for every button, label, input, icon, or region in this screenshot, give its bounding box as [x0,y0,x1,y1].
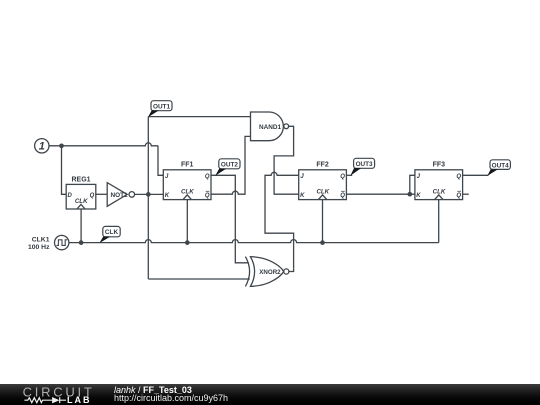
credit line 1 [114,385,192,395]
CircuitLab logo [0,384,110,405]
wire FF1 Qbar to NAND1 input B (hop at 235.3, up x=245) [211,136,251,194]
svg-text:K: K [165,193,170,199]
svg-text:OUT1: OUT1 [153,103,170,110]
svg-text:J: J [300,174,304,180]
flag wedge CLK [99,237,110,244]
svg-text:Q: Q [456,174,461,180]
flip-flop FF2 box [299,170,347,200]
credit line 2 [114,393,228,403]
wire FF1 clock down to CLK line [186,200,188,243]
wire FF1 Q to XNOR2 input A (right, down x=235.3) [211,175,249,262]
svg-text:J: J [417,174,421,180]
flag wedge OUT1 [148,110,159,117]
junction dot CLK/FF2 clock [320,240,325,245]
wire FF2 Q stub to OUT3 [346,174,352,176]
svg-text:NAND1: NAND1 [259,124,281,131]
wire FF3 clock down to CLK line [438,200,440,243]
flag wedge OUT2 [215,169,226,176]
footer bar [0,384,540,405]
FF1 clock edge triangle [183,195,191,200]
flag label OUT3 [354,158,375,168]
svg-text:CLK: CLK [105,229,119,236]
flag label OUT1 [151,101,172,111]
svg-text:XNOR2: XNOR2 [259,269,281,276]
wire FF3 Q to OUT4 [463,174,489,176]
svg-text:CLK: CLK [316,188,329,195]
inverter NOT1 triangle [107,183,127,207]
svg-text:CLK: CLK [75,198,88,205]
wire XNOR2 output to FF2 J (hop over J line at 274.1 is on this J wire) [265,172,299,268]
FF2 clock edge triangle [318,195,326,200]
vertical OUT1 net wire x=148.3 [147,117,149,279]
clock distribution wire y=242.6 with hops at 148.3, 235.3, 293.6 [69,240,439,243]
svg-text:K: K [416,193,421,199]
svg-text:100 Hz: 100 Hz [28,244,50,251]
svg-text:NOT1: NOT1 [111,192,128,199]
wire node1 branch down to FF1 J [158,146,163,176]
svg-text:D: D [68,193,73,199]
svg-text:J: J [165,174,169,180]
register REG1 box [66,184,96,209]
flag label OUT2 [219,159,240,169]
XNOR2 output bubble [284,269,289,274]
svg-text:OUT4: OUT4 [492,162,509,169]
wire OUT1 net to NAND1 input A [148,116,250,118]
CLK1 square wave glyph [56,240,67,246]
wire FF2 Qbar branch up to FF3 J [410,175,415,194]
wire REG1 Q to NOT1 input [96,193,107,195]
nand gate NAND1 body [251,112,284,141]
flag wedge OUT4 [487,169,498,176]
svg-text:OUT2: OUT2 [221,162,238,169]
junction dot FF2 Qbar branch [407,192,412,197]
xnor gate XNOR2 leading arc [245,257,249,287]
svg-text:LAB: LAB [67,395,92,405]
wire NOT1 output to FF1 K [135,193,164,195]
svg-text:CLK1: CLK1 [32,237,50,244]
flag label OUT4 [490,160,510,170]
wire NAND1 output to FF2 K (down x=293.6, left, down x=274.1) [274,126,299,194]
clock source CLK1 circle [55,235,69,249]
NAND1 output bubble [284,124,289,129]
flag label CLK [103,226,120,236]
svg-text:1: 1 [39,141,45,153]
junction dot CLK1/REG1 clock [79,240,84,245]
wire node1 to FF1 J branch (y=145.8, hop at x=148.3) [49,143,158,146]
svg-text:Q: Q [205,174,210,180]
svg-text:FF1: FF1 [181,162,194,169]
flip-flop FF3 box [415,170,463,200]
svg-text:Q: Q [90,193,95,199]
svg-text:FF3: FF3 [433,162,446,169]
node 1 terminal circle [35,139,49,153]
NOT1 output bubble [129,192,135,198]
junction dot NOT1 output / OUT1 net [146,192,151,197]
junction dot node1/REG1 [59,143,64,148]
wire REG1 clock down to CLK line [80,209,82,243]
svg-text:OUT3: OUT3 [356,161,373,168]
svg-text:Q: Q [340,174,345,180]
wire FF2 clock down to CLK line [322,200,324,243]
svg-text:CLK: CLK [181,188,194,195]
FF3 clock edge triangle [435,195,443,200]
junction dot CLK/FF1 clock [185,240,190,245]
wire XNOR2 output up to FF2 J net [289,269,294,272]
wire OUT1 net to XNOR2 input B [148,278,250,280]
svg-text:FF2: FF2 [316,162,329,169]
XNOR2 body [250,257,283,287]
flag wedge OUT3 [350,168,361,176]
REG1 clock edge triangle [77,204,85,209]
svg-text:Q: Q [340,193,345,199]
svg-text:Q: Q [456,193,461,199]
flip-flop FF1 box [163,170,211,200]
wire node1 down to REG1 D [62,146,67,195]
svg-text:Q: Q [205,193,210,199]
wire FF3 Qbar stub [463,193,469,195]
wire FF2 Qbar to FF3 K [346,193,415,195]
svg-text:K: K [300,193,305,199]
svg-text:REG1: REG1 [71,177,90,184]
svg-text:CLK: CLK [433,188,446,195]
